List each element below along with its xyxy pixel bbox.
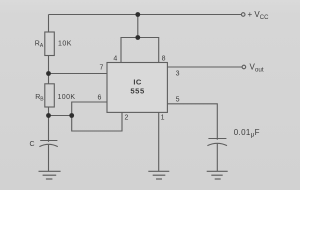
svg-text:4: 4 — [113, 55, 117, 62]
svg-text:8: 8 — [162, 55, 166, 62]
svg-text:6: 6 — [98, 94, 102, 101]
wire pin3 output — [167, 66, 242, 68]
svg-text:100K: 100K — [58, 94, 76, 101]
capacitor C — [39, 141, 57, 172]
svg-text:3: 3 — [176, 70, 180, 77]
junction dot RA-RB-pin7 — [46, 71, 51, 76]
resistor RA — [45, 32, 55, 56]
wire C top — [48, 116, 50, 142]
wire node to pins 6-2 — [49, 115, 72, 117]
terminal Vout circle — [242, 65, 246, 69]
ground under C — [39, 171, 61, 179]
terminal +Vcc circle — [241, 13, 245, 17]
wire Vcc rail — [49, 14, 242, 16]
capacitor 0.01uF — [207, 139, 227, 172]
wire RA bottom — [48, 56, 50, 74]
resistor RB — [45, 84, 55, 107]
wire pin6 branch — [72, 102, 122, 131]
svg-text:555: 555 — [130, 87, 145, 96]
wire pin1 to ground — [158, 112, 160, 171]
wire RB bottom — [48, 107, 50, 116]
svg-text:C: C — [30, 141, 35, 148]
wire RA top — [48, 15, 50, 33]
svg-text:1: 1 — [161, 115, 165, 122]
junction dot Vcc rail — [135, 12, 140, 17]
junction dot pins 6-2 — [69, 113, 74, 118]
svg-text:5: 5 — [176, 96, 180, 103]
wire pins 4-8 bracket — [121, 38, 159, 63]
wire pin7 — [49, 73, 108, 75]
IC 555 box U1 — [107, 63, 167, 113]
svg-text:IC: IC — [133, 77, 142, 86]
svg-text:2: 2 — [125, 114, 129, 121]
wire pin5 — [167, 104, 217, 140]
wire Vcc drop to pins 4-8 — [137, 15, 139, 38]
ground under 0.01uF — [207, 171, 228, 179]
svg-text:7: 7 — [100, 64, 104, 71]
svg-text:10K: 10K — [58, 41, 72, 48]
svg-text:0.01μF: 0.01μF — [234, 128, 260, 138]
wire RB top — [48, 74, 50, 84]
junction dot RB-C — [46, 113, 51, 118]
ground under pin1 — [148, 171, 169, 179]
junction dot pins 4-8 — [135, 35, 140, 40]
